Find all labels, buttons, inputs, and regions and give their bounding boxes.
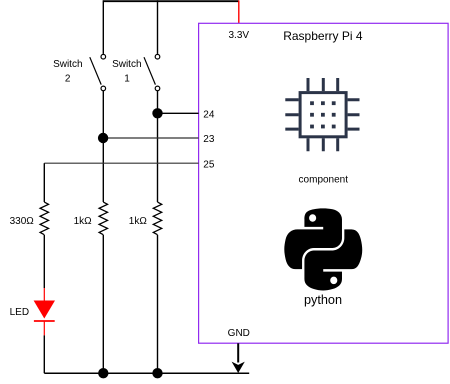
junction dot pin24	[152, 108, 162, 118]
GND arrowhead	[232, 362, 245, 373]
wire LED branch middle	[43, 235, 45, 288]
svg-text:23: 23	[203, 134, 215, 145]
svg-text:GND: GND	[228, 328, 250, 339]
Raspberry Pi 4 box	[199, 23, 449, 343]
svg-text:Raspberry Pi 4: Raspberry Pi 4	[283, 29, 363, 43]
junction dot pin23	[98, 133, 108, 143]
wire pin 25	[44, 162, 198, 164]
svg-text:2: 2	[65, 74, 71, 85]
svg-text:1kΩ: 1kΩ	[129, 216, 148, 227]
wire bottom bus	[44, 372, 249, 374]
resistor R2 1kohm	[99, 202, 107, 235]
svg-text:25: 25	[203, 160, 215, 171]
svg-text:3.3V: 3.3V	[229, 30, 250, 41]
wire switch2 top	[102, 0, 104, 54]
resistor R3 1kohm	[153, 202, 161, 235]
wire switch1 branch lower	[157, 235, 159, 373]
wire pin 23	[103, 137, 199, 139]
svg-text:24: 24	[203, 110, 215, 121]
svg-text:Switch: Switch	[53, 59, 82, 70]
svg-text:1kΩ: 1kΩ	[74, 216, 93, 227]
svg-text:LED: LED	[10, 307, 29, 318]
python logo	[284, 208, 362, 290]
svg-text:python: python	[304, 293, 342, 307]
wire switch2 branch vertical	[102, 91, 104, 202]
wire LED branch upper	[43, 163, 45, 202]
wire switch1 branch vertical	[157, 91, 159, 202]
switch S2	[90, 54, 106, 90]
wire switch1 top	[157, 0, 159, 54]
junction dot bottom switch1	[152, 368, 162, 378]
wire LED branch lower	[43, 335, 45, 373]
wire pin 24	[158, 112, 199, 114]
wire top bus	[103, 0, 239, 2]
switch S1	[144, 54, 160, 90]
svg-text:component: component	[299, 175, 349, 186]
junction dot bottom switch2	[98, 368, 108, 378]
label Switch 1	[112, 59, 141, 85]
label Switch 2	[53, 59, 82, 85]
svg-text:1: 1	[124, 74, 130, 85]
wire GND	[237, 343, 239, 362]
wire switch2 branch lower	[102, 235, 104, 373]
chip U1 icon	[285, 78, 359, 151]
wire 3.3V (red)	[238, 0, 240, 23]
resistor R1 330ohm	[40, 202, 48, 235]
svg-text:330Ω: 330Ω	[10, 216, 35, 227]
LED D1	[34, 288, 55, 335]
svg-text:Switch: Switch	[112, 59, 141, 70]
